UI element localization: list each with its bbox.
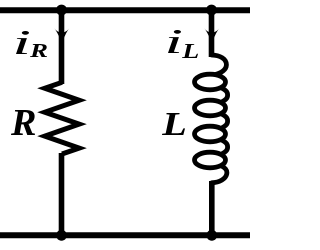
label i_R : subscript R xyxy=(30,44,47,57)
current arrow i_R head xyxy=(54,28,69,44)
wire top rail xyxy=(0,7,250,13)
label R (resistor) xyxy=(11,110,35,135)
node junction dot bottom-right xyxy=(206,230,217,241)
wire left branch lower segment xyxy=(59,153,65,236)
wire left branch upper segment xyxy=(59,10,65,84)
label L (inductor) xyxy=(162,113,185,135)
node junction dot top-left xyxy=(56,5,67,16)
node junction dot top-right xyxy=(206,5,217,16)
resistor R zigzag xyxy=(45,82,79,154)
current arrow i_L head xyxy=(204,28,219,44)
wire bottom rail xyxy=(0,232,250,238)
inductor L coil xyxy=(195,74,226,90)
wire right branch lower segment xyxy=(209,181,215,236)
wire right branch upper segment xyxy=(209,10,215,57)
label i_L : i xyxy=(168,30,181,53)
label i_R : i xyxy=(16,31,29,54)
label i_L : subscript L xyxy=(182,44,198,58)
node junction dot bottom-left xyxy=(56,230,67,241)
